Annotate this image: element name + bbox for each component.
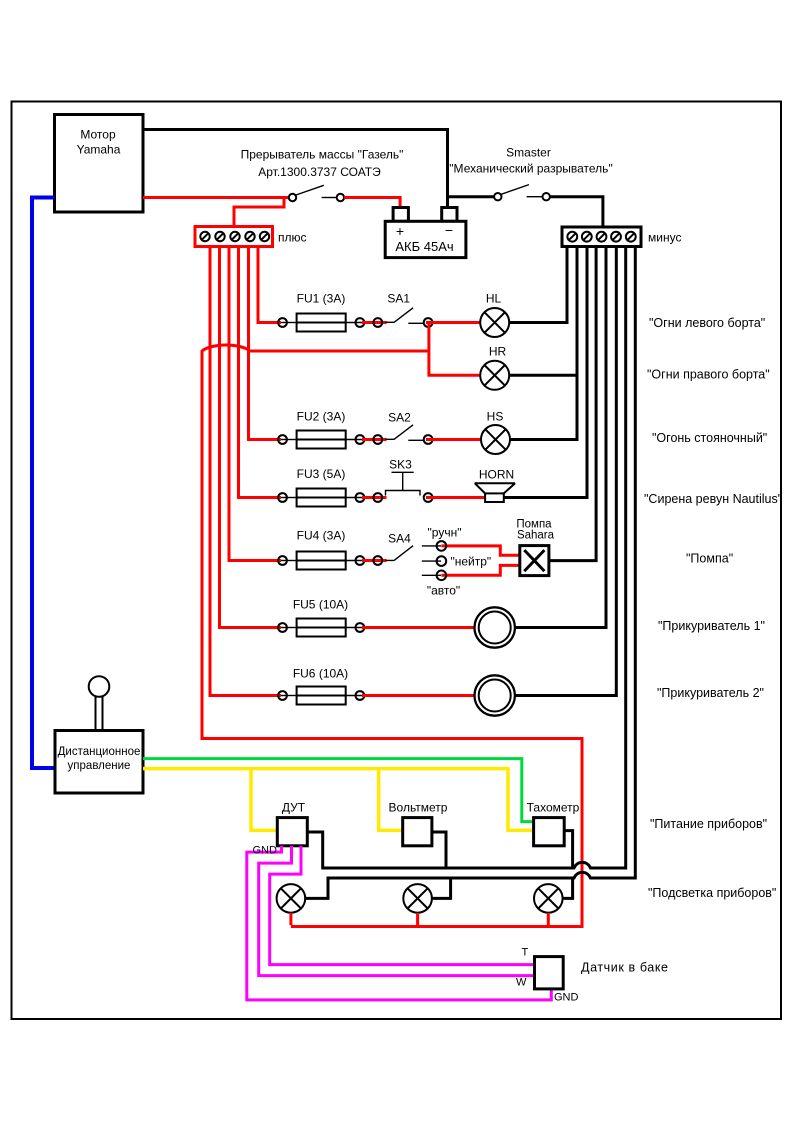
- wire: FU5 to socket 1 (red): [362, 626, 475, 629]
- speaker HORN: [475, 483, 515, 502]
- fuse FU6 (10A): [278, 687, 364, 705]
- svg-text:FU3 (5A): FU3 (5A): [297, 467, 346, 481]
- svg-text:"ручн": "ручн": [428, 526, 462, 540]
- svg-text:"Сирена ревун Nautilus": "Сирена ревун Nautilus": [644, 492, 782, 506]
- instrument: Вольтметр: [403, 818, 432, 846]
- svg-text:"Подсветка приборов": "Подсветка приборов": [648, 886, 776, 900]
- lamp: backlight 1: [277, 884, 306, 913]
- svg-text:SA1: SA1: [387, 292, 410, 306]
- wire: авто contact to pump (red): [441, 565, 519, 575]
- svg-text:управление: управление: [68, 760, 131, 772]
- wire: plus bus to FU5 (red): [220, 247, 282, 628]
- svg-text:SA2: SA2: [388, 411, 411, 425]
- wire: lamp bus to backlight lamp 3 (black): [563, 878, 573, 898]
- wire: voltmeter to ground bus (black): [432, 832, 446, 868]
- svg-text:FU2 (3A): FU2 (3A): [297, 410, 346, 424]
- instrument: ДУТ: [277, 818, 307, 846]
- fuse FU1 (3A): [278, 314, 364, 332]
- svg-text:FU6 (10A): FU6 (10A): [293, 667, 348, 681]
- svg-text:"Прикуриватель 1": "Прикуриватель 1": [658, 619, 765, 633]
- wire: lamp 2 to red supply bus: [416, 913, 419, 925]
- svg-text:SK3: SK3: [389, 458, 412, 472]
- contact: ручн: [422, 541, 446, 551]
- svg-text:"авто": "авто": [427, 584, 460, 598]
- svg-text:"Огни правого борта": "Огни правого борта": [647, 368, 770, 382]
- wire: tachometer to ground bus (black): [564, 831, 572, 868]
- svg-text:HORN: HORN: [479, 468, 514, 482]
- svg-text:T: T: [522, 947, 529, 959]
- terminal block: плюс: [195, 227, 273, 247]
- wire: yellow branch to ДУТ: [251, 769, 277, 831]
- svg-text:Прерыватель массы "Газель": Прерыватель массы "Газель": [241, 148, 404, 162]
- wire: Smaster to minus terminal block (black): [550, 197, 603, 228]
- svg-text:Smaster: Smaster: [506, 146, 551, 160]
- svg-text:"Механический разрыватель": "Механический разрыватель": [449, 162, 612, 176]
- wire: minus bus to instrument ground bus with jump (black): [307, 247, 625, 869]
- wire: plus bus to FU4 (red): [229, 247, 281, 561]
- wire: pump to minus bus (black): [549, 247, 596, 561]
- wire: ДУТ W sensor line (magenta): [259, 846, 533, 976]
- wire: blue from motor to remote control: [32, 198, 55, 769]
- lamp HR: [480, 361, 509, 390]
- lamp HL: [480, 308, 509, 337]
- svg-text:"Огни левого борта": "Огни левого борта": [649, 316, 765, 330]
- svg-text:"Огонь стояночный": "Огонь стояночный": [652, 431, 767, 445]
- fuse FU2 (3A): [278, 431, 364, 449]
- svg-text:FU4 (3A): FU4 (3A): [297, 529, 346, 543]
- box: Motor Yamaha: [55, 115, 144, 213]
- switch SA2: [362, 425, 433, 444]
- wire: HR feed with crossover jump, down to instrument supply (red): [202, 345, 582, 927]
- svg-text:Тахометр: Тахометр: [527, 801, 580, 815]
- svg-text:+: +: [396, 223, 404, 239]
- svg-text:GND: GND: [554, 992, 579, 1004]
- terminal block: минус: [562, 227, 641, 247]
- wire: HL to minus bus (black): [509, 247, 567, 323]
- wire: ручн contact to pump (red): [441, 546, 519, 555]
- svg-text:Мотор: Мотор: [80, 128, 116, 142]
- switch: mass breaker "Газель": [289, 185, 344, 201]
- svg-text:Датчик в баке: Датчик в баке: [581, 961, 669, 975]
- wire: yellow instrument feed: [143, 769, 534, 831]
- socket: Прикуриватель 2: [475, 675, 515, 715]
- svg-text:АКБ 45Ач: АКБ 45Ач: [395, 239, 453, 254]
- svg-text:FU1 (3A): FU1 (3A): [297, 292, 346, 306]
- svg-text:SA4: SA4: [388, 532, 411, 546]
- svg-text:Вольтметр: Вольтметр: [389, 801, 448, 815]
- svg-text:"Прикуриватель 2": "Прикуриватель 2": [657, 686, 764, 700]
- svg-text:ДУТ: ДУТ: [282, 801, 306, 815]
- contact: авто: [422, 571, 446, 581]
- wire: FU6 to socket 2 (red): [362, 694, 475, 697]
- wire: plus bus to FU1 (red): [258, 247, 281, 323]
- wire: lamp 1 to red supply bus: [289, 913, 292, 925]
- wire: plus bus to FU6 (red): [210, 247, 281, 696]
- wire: SK3 to horn (red): [426, 496, 485, 499]
- wire: HR and HS shared minus return (black): [509, 247, 577, 440]
- fuse FU3 (5A): [278, 489, 364, 507]
- box: Датчик в баке: [535, 957, 564, 989]
- svg-text:минус: минус: [648, 231, 681, 245]
- switch SA1: [362, 308, 433, 327]
- wire: battery minus to Smaster switch (black): [448, 195, 495, 198]
- node: plus tap to terminal block: [234, 198, 284, 228]
- wire: motor to battery minus terminal (black): [143, 130, 448, 209]
- wire: plus bus to FU3 (red): [239, 247, 282, 498]
- wire: green tachometer signal: [143, 759, 534, 822]
- pump: Помпа Sahara: [520, 546, 549, 576]
- wire: ДУТ T sensor line (magenta): [270, 846, 533, 965]
- wire: socket 1 to minus bus (black): [515, 247, 606, 628]
- svg-text:GND: GND: [253, 845, 278, 857]
- svg-text:HL: HL: [486, 292, 502, 306]
- wire: lamp bus to backlight lamp 2 (black): [432, 878, 451, 898]
- svg-text:Арт.1300.3737 СОАТЭ: Арт.1300.3737 СОАТЭ: [258, 165, 381, 179]
- wire: SA1 node down to HR (red): [429, 323, 480, 376]
- wire: SA2 to HS (red): [426, 438, 481, 441]
- lamp: backlight 2: [403, 884, 432, 913]
- instrument: Тахометр: [534, 818, 565, 846]
- battery GB1 АКБ 45Ач: [385, 208, 466, 258]
- svg-text:Дистанционное: Дистанционное: [58, 746, 141, 758]
- svg-text:Yamaha: Yamaha: [77, 143, 121, 157]
- switch SA4: [362, 546, 413, 565]
- wire: minus bus to lamp bus with jump (black): [305, 247, 635, 899]
- svg-text:−: −: [445, 222, 453, 238]
- svg-text:HR: HR: [489, 345, 507, 359]
- wire: ДУТ GND line (magenta): [247, 846, 552, 1000]
- svg-text:HS: HS: [487, 410, 504, 424]
- fuse FU5 (10A): [278, 619, 364, 637]
- switch: Smaster mechanical breaker: [494, 185, 550, 201]
- lamp HS: [481, 425, 510, 454]
- svg-text:FU5 (10A): FU5 (10A): [293, 598, 348, 612]
- wire: yellow branch to voltmeter: [379, 769, 403, 831]
- box: Дистанционное управление: [55, 731, 143, 794]
- wire: plus bus to FU2 (red): [249, 247, 282, 440]
- svg-text:"Помпа": "Помпа": [686, 552, 733, 566]
- svg-text:W: W: [516, 977, 527, 989]
- svg-text:"Питание приборов": "Питание приборов": [650, 817, 767, 831]
- lamp: backlight 3: [534, 884, 563, 913]
- wire: socket 2 to minus bus (black): [515, 247, 616, 696]
- svg-text:"нейтр": "нейтр": [451, 555, 492, 569]
- svg-text:плюс: плюс: [278, 231, 307, 245]
- wire: breaker to battery plus (red): [344, 198, 400, 209]
- wire: SA1 to HL (red): [426, 321, 480, 324]
- joystick lever: [89, 676, 110, 730]
- pushbutton SK3: [362, 472, 433, 502]
- wire: lamp 3 to red supply bus: [547, 913, 550, 925]
- wire: motor plus to breaker (red): [143, 196, 288, 199]
- svg-text:Sahara: Sahara: [517, 530, 555, 542]
- socket: Прикуриватель 1: [475, 607, 515, 647]
- wire: horn to minus bus (black): [504, 247, 587, 498]
- fuse FU4 (3A): [278, 552, 364, 570]
- contact: нейтр: [422, 556, 446, 566]
